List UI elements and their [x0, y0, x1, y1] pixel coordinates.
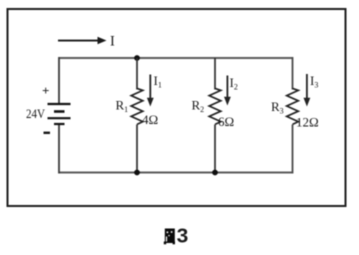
wire R3 upper lead (right side of loop)	[292, 57, 294, 90]
resistor R2 6ohm	[209, 88, 221, 124]
arrow branch current I2	[224, 76, 231, 106]
wire left branch lower (battery to bottom bus)	[58, 124, 60, 174]
svg-text:24V: 24V	[26, 106, 46, 121]
caption figure 3 glyph (CJK tu)	[164, 229, 175, 245]
node junction dot bottom bus below R1	[134, 170, 140, 176]
arrow branch current I3	[304, 74, 311, 107]
wire left branch upper (battery to top bus)	[58, 57, 60, 104]
arrow current I on top bus	[58, 37, 107, 45]
svg-text:I: I	[110, 34, 115, 50]
wire R2 lower lead	[214, 125, 216, 173]
battery V1 24V	[48, 104, 71, 124]
svg-text:4Ω: 4Ω	[142, 112, 158, 127]
node junction dot bottom bus below R2	[212, 170, 218, 176]
wire R1 upper lead	[136, 58, 138, 90]
resistor R1 4ohm	[131, 88, 143, 124]
wire bottom bus (node B)	[59, 172, 293, 174]
arrow branch current I1	[147, 75, 154, 107]
wire R3 lower lead (right side of loop)	[292, 125, 294, 174]
wire R2 upper lead	[214, 58, 216, 90]
wire R1 lower lead	[136, 125, 138, 173]
svg-text:+: +	[42, 83, 49, 98]
wire top bus (node A)	[59, 57, 293, 59]
label battery minus terminal	[44, 132, 51, 134]
resistor R3 12ohm	[287, 88, 299, 124]
svg-text:3: 3	[177, 225, 189, 247]
node A junction dot on top bus above R1	[134, 55, 140, 61]
svg-text:12Ω: 12Ω	[296, 115, 319, 130]
svg-text:6Ω: 6Ω	[218, 114, 234, 129]
border frame of figure	[8, 9, 346, 206]
